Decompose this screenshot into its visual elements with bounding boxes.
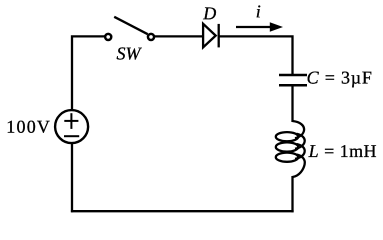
voltage source V1 100V: [55, 110, 88, 143]
wire top from switch to diode: [154, 35, 203, 37]
wire bottom right vertical: [291, 176, 293, 212]
wire left vertical top: [72, 36, 108, 109]
svg-text:i: i: [256, 1, 261, 21]
svg-text:L = 1mH: L = 1mH: [308, 141, 377, 161]
svg-text:D: D: [202, 3, 216, 23]
wire left vertical bottom: [71, 144, 73, 212]
wire capacitor to inductor: [291, 85, 293, 122]
current arrow i: [236, 22, 283, 32]
capacitor C: [279, 75, 307, 85]
svg-text:C = 3µF: C = 3µF: [307, 68, 373, 88]
svg-text:100V: 100V: [6, 117, 51, 137]
svg-text:SW: SW: [116, 43, 142, 63]
wire bottom: [71, 210, 294, 212]
wire diode to top right corner: [220, 36, 293, 75]
inductor L: [276, 121, 305, 177]
diode D: [203, 24, 219, 48]
switch SW: [105, 17, 154, 40]
